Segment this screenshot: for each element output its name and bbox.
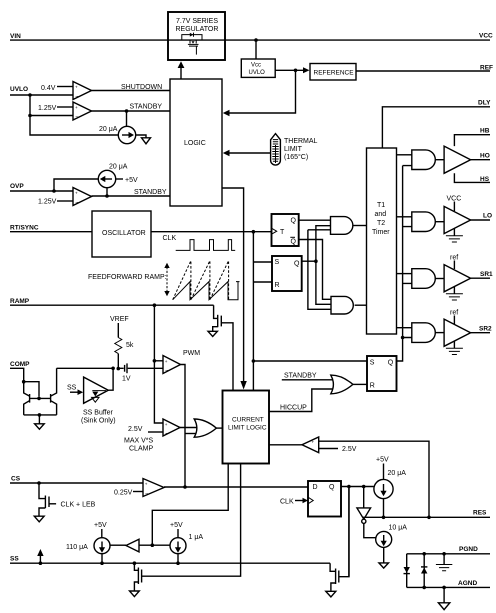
svg-text:HO: HO (480, 153, 490, 160)
svg-text:1V: 1V (122, 376, 131, 383)
svg-text:R: R (370, 383, 375, 390)
svg-text:1.25V: 1.25V (38, 105, 57, 112)
svg-text:LOGIC: LOGIC (184, 140, 206, 147)
svg-text:T2: T2 (377, 220, 385, 227)
svg-text:−: − (145, 491, 148, 497)
svg-text:0.4V: 0.4V (41, 85, 56, 92)
svg-text:−: − (165, 431, 168, 437)
ground (UVLO 20uA) (136, 135, 151, 144)
wire PWM output (181, 365, 198, 488)
wire HB (454, 128, 490, 147)
svg-text:CLAMP: CLAMP (129, 446, 153, 453)
svg-text:10 μA: 10 μA (389, 525, 408, 532)
node RAMP junction (153, 303, 163, 423)
transistor pass PMOS inside regulator (182, 33, 202, 55)
svg-text:LIMIT: LIMIT (284, 146, 303, 153)
svg-text:20 μA: 20 μA (109, 164, 128, 171)
svg-text:T: T (280, 229, 285, 236)
wire 20uA to comparator output node (105, 188, 109, 198)
svg-text:ref: ref (450, 255, 458, 262)
svg-text:+: + (165, 422, 168, 427)
svg-text:Q: Q (294, 261, 300, 268)
svg-text:+: + (75, 85, 78, 90)
node UVLO junction lower (28, 114, 119, 135)
wire Vcc UVLO to LOGIC (223, 70, 296, 116)
svg-text:1 μA: 1 μA (189, 534, 204, 541)
wire REF output (356, 65, 493, 72)
svg-text:7.7V SERIES: 7.7V SERIES (176, 18, 218, 25)
svg-text:VCC: VCC (447, 196, 462, 203)
svg-text:+: + (165, 359, 168, 364)
svg-text:CLK: CLK (163, 235, 177, 242)
current source 20uA (RES) (374, 457, 406, 518)
svg-text:PGND: PGND (459, 546, 478, 553)
wire mirror emitters rail (24, 413, 57, 423)
svg-text:110 μA: 110 μA (66, 544, 88, 551)
svg-text:RES: RES (473, 510, 487, 517)
svg-text:Q: Q (291, 239, 297, 246)
svg-text:+: + (75, 105, 78, 110)
wire timer to AND1 upper (397, 154, 412, 156)
svg-text:and: and (375, 211, 387, 218)
comparator shutdown (73, 82, 92, 101)
symbol double arrow ramp amplitude (164, 263, 169, 296)
svg-text:VIN: VIN (10, 33, 21, 40)
wire timer to AND2 upper (397, 216, 412, 218)
buffer SR1 driver (444, 255, 471, 292)
svg-text:20 μA: 20 μA (388, 470, 407, 477)
svg-text:UVLO: UVLO (249, 70, 266, 76)
wire STANDBY (UVLO) (92, 104, 171, 112)
svg-text:REF: REF (480, 65, 493, 72)
svg-text:SS: SS (10, 556, 19, 563)
wire mirror bases (30, 397, 51, 399)
comparator OVP (73, 188, 92, 207)
buffer SS clamp (left pointing) (110, 539, 170, 552)
regulator U1 7.7V series regulator (168, 12, 225, 60)
wire T-FF Qbar to AND gate B (299, 240, 331, 300)
gate AND4 (SR2 path) (412, 323, 444, 343)
transistor mirror right BJT (51, 368, 57, 415)
wire CLK (151, 232, 272, 242)
ground (ramp NMOS) (208, 331, 217, 336)
wire 0.25V input (114, 490, 143, 497)
wire thermal limit to LOGIC (223, 150, 270, 156)
wire D-FF Q output (341, 485, 374, 489)
svg-text:MAX V*S: MAX V*S (124, 438, 154, 445)
block T1 and T2 timer (367, 148, 397, 334)
svg-text:−: − (75, 94, 78, 100)
wire SHUTDOWN (92, 84, 171, 91)
comparator 2.5V max clamp (124, 419, 180, 453)
wire timer to AND4 upper (397, 327, 412, 329)
svg-text:HICCUP: HICCUP (280, 405, 307, 412)
wire CS pin (10, 476, 143, 484)
node COMP junction (22, 380, 41, 400)
wire RT/SYNC pin (10, 225, 92, 232)
ground earth (PGND) (436, 554, 452, 571)
svg-text:1.25V: 1.25V (38, 199, 57, 206)
wire enable third input (308, 230, 331, 309)
ground (COMP mirror) (35, 424, 45, 429)
wire SS buffer output (108, 368, 113, 390)
svg-text:CLK: CLK (280, 499, 294, 506)
thermal limit sensor (271, 134, 318, 165)
buffer SS (sink only) (67, 377, 116, 424)
svg-text:5k: 5k (126, 342, 134, 349)
svg-text:Q: Q (329, 484, 335, 491)
gate AND3 (SR1 path) (412, 269, 444, 289)
wire LOGIC to current limit logic (222, 188, 247, 390)
svg-text:LO: LO (483, 213, 492, 220)
wire PGND (407, 546, 490, 556)
svg-text:Vcc: Vcc (251, 63, 261, 69)
diode D2 (AGND-PGND) (421, 554, 427, 588)
wire timer to AND3 upper (397, 273, 412, 275)
svg-text:SS: SS (67, 385, 77, 392)
svg-text:−: − (165, 368, 168, 374)
node VIN/VCC to Vcc-UVLO junction (254, 38, 258, 59)
svg-text:LIMIT LOGIC: LIMIT LOGIC (228, 425, 267, 432)
buffer HO driver (444, 146, 471, 173)
gate AND B (3-input) (331, 296, 353, 314)
wire Q to lower NMOS gate (348, 487, 350, 577)
wire SS pin rail (10, 556, 330, 564)
svg-text:RAMP: RAMP (10, 298, 30, 305)
svg-text:+5V: +5V (170, 522, 183, 529)
resistor 5k (115, 338, 134, 371)
block CURRENT LIMIT LOGIC (223, 391, 270, 464)
transistor mirror left BJT (24, 382, 30, 415)
svg-text:T1: T1 (377, 202, 385, 209)
wire 0.4V input (41, 85, 73, 92)
svg-text:0.25V: 0.25V (114, 490, 133, 497)
svg-text:Timer: Timer (372, 229, 390, 236)
current source 20uA (UVLO) (99, 109, 136, 144)
ground (SR1 driver) (446, 287, 463, 301)
wire CLL to SS clamp (152, 464, 228, 546)
latch SR (PWM latch) (272, 256, 302, 291)
svg-text:REFERENCE: REFERENCE (314, 70, 355, 77)
svg-text:HS: HS (480, 176, 490, 183)
wire DLY (382, 100, 491, 149)
svg-text:(Sink Only): (Sink Only) (81, 418, 116, 425)
svg-text:DLY: DLY (478, 100, 491, 107)
symbol SS up arrow (37, 549, 43, 565)
wire HICCUP (269, 389, 333, 412)
gate AND1 (HO path) (412, 150, 444, 170)
svg-text:VCC: VCC (479, 33, 493, 40)
svg-text:OVP: OVP (10, 183, 24, 190)
inverter (RES discharge) (357, 487, 376, 538)
wire Vcc UVLO output (275, 67, 309, 73)
ground (LO driver) (446, 228, 463, 242)
wire latch1 Q branch (302, 226, 331, 305)
block OSCILLATOR (92, 211, 151, 257)
svg-text:UVLO: UVLO (10, 86, 28, 93)
node UVLO junction upper (28, 93, 32, 115)
wire COMP pin (10, 361, 30, 382)
svg-text:R: R (275, 282, 280, 289)
svg-text:+: + (75, 191, 78, 196)
flip-flop D (restart) (308, 481, 341, 517)
wire STANDBY (OVP) (92, 189, 171, 196)
wire HO (471, 153, 490, 160)
svg-text:SS Buffer: SS Buffer (83, 410, 114, 417)
svg-text:20 μA: 20 μA (99, 126, 118, 133)
wire +5V (OVP source) (116, 177, 138, 184)
wire enable vertical to AND gates (397, 166, 412, 361)
wire VIN to VCC (10, 33, 493, 41)
svg-text:STANDBY: STANDBY (284, 373, 317, 380)
wire 1.25V input (OVP) (38, 199, 73, 206)
wire AND B to timer (355, 304, 367, 306)
svg-text:AGND: AGND (458, 580, 477, 587)
svg-text:−: − (75, 115, 78, 121)
flip-flop T (toggle) (272, 214, 299, 246)
symbol sink arrow (10uA) (379, 563, 389, 568)
svg-text:SR2: SR2 (479, 326, 492, 333)
transistor ramp discharge NMOS (213, 305, 233, 390)
wire CLK to D flip-flop (280, 498, 308, 506)
comparator PWM (153, 350, 201, 374)
svg-text:STANDBY: STANDBY (134, 189, 167, 196)
ground (SS NMOS left) (130, 591, 140, 597)
svg-text:REGULATOR: REGULATOR (176, 26, 219, 33)
label feedforward ramp (88, 274, 167, 281)
svg-text:COMP: COMP (10, 361, 30, 368)
svg-text:ref: ref (450, 310, 458, 317)
waveform clock pulses (176, 240, 236, 251)
node CLK junction (252, 230, 256, 390)
wire 1.25V input (38, 105, 73, 112)
block REFERENCE (310, 64, 356, 81)
svg-text:+: + (145, 482, 148, 487)
current source 110uA (SS) (66, 522, 110, 565)
latch SR (hiccup latch) (367, 356, 397, 391)
svg-text:FEEDFORWARD RAMP:: FEEDFORWARD RAMP: (88, 274, 167, 281)
ground (AGND) (438, 587, 449, 609)
current source 10uA (RES) (376, 525, 408, 563)
svg-text:HB: HB (480, 128, 490, 135)
svg-text:Q: Q (291, 218, 297, 225)
wire OVP pin (10, 183, 73, 191)
svg-text:SHUTDOWN: SHUTDOWN (121, 84, 162, 91)
transistor SS discharge NMOS (left) (133, 464, 241, 591)
svg-text:2.5V: 2.5V (128, 426, 143, 433)
svg-text:−: − (75, 200, 78, 206)
comparator CS (143, 479, 164, 498)
svg-text:STANDBY: STANDBY (130, 104, 163, 111)
transistor SS discharge NMOS (right) (330, 487, 349, 591)
svg-text:VREF: VREF (110, 316, 129, 323)
svg-text:SR1: SR1 (480, 271, 493, 278)
buffer SR2 driver (444, 310, 471, 347)
wire SR2 (471, 326, 492, 333)
wire AGND (407, 580, 490, 589)
ground (CLK+LEB NMOS) (34, 516, 44, 522)
svg-text:+5V: +5V (376, 457, 389, 464)
wire LO (471, 213, 492, 221)
svg-text:Q: Q (388, 360, 394, 367)
wire CS comparator output (164, 485, 308, 489)
svg-text:S: S (275, 259, 280, 266)
wire T-FF Q to AND gate A (299, 219, 331, 221)
svg-text:PWM: PWM (183, 350, 200, 357)
svg-text:+5V: +5V (94, 522, 107, 529)
wire HS (454, 173, 490, 183)
svg-text:OSCILLATOR: OSCILLATOR (102, 230, 146, 237)
svg-text:+: + (312, 440, 315, 445)
svg-text:THERMAL: THERMAL (284, 138, 318, 145)
wire RAMP pin (10, 298, 214, 305)
svg-text:CLK + LEB: CLK + LEB (61, 502, 96, 509)
wire arrow LOGIC to regulator (178, 61, 185, 79)
wire latch R to latch2 S (252, 359, 367, 363)
node CS junction (37, 481, 45, 498)
svg-text:CURRENT: CURRENT (232, 417, 264, 424)
label VREF (110, 316, 129, 338)
current source 20uA (OVP) (98, 164, 127, 188)
waveform feedforward ramp sawtooth (173, 261, 240, 300)
comparator standby (UVLO) (73, 102, 92, 121)
wire AND A to timer (353, 225, 367, 227)
svg-text:2.5V: 2.5V (342, 446, 357, 453)
gate OR (pwm/clamp) (194, 419, 222, 437)
gate AND2 (LO path) (412, 212, 444, 232)
block LOGIC (170, 79, 222, 206)
svg-text:RT/SYNC: RT/SYNC (10, 225, 39, 232)
gate AND A (3-input) (331, 217, 353, 235)
capacitor 1V (118, 363, 163, 382)
block Vcc UVLO (241, 59, 275, 77)
wire clamp output (180, 427, 197, 429)
buffer LO driver (444, 196, 471, 234)
svg-text:CS: CS (11, 476, 21, 483)
svg-text:(165°C): (165°C) (284, 153, 308, 161)
wire CLK to latch S (253, 261, 272, 263)
wire STANDBY to OR (282, 373, 333, 380)
ground (SS NMOS right) (326, 591, 336, 597)
wire UVLO pin (10, 86, 73, 95)
gate OR (standby/hiccup) (331, 375, 367, 394)
wire mirror to comp net (57, 367, 115, 371)
comparator 2.5V restart (269, 437, 429, 517)
svg-text:D: D (313, 484, 318, 491)
svg-text:S: S (370, 360, 375, 367)
svg-text:+5V: +5V (125, 177, 138, 184)
wire SR1 (471, 271, 493, 278)
wire RES (363, 510, 490, 520)
diode D1 (PGND-AGND) (404, 554, 410, 588)
wire latch R (253, 281, 272, 283)
current source 1uA (SS) (170, 522, 203, 565)
node OVP junction (52, 179, 98, 193)
transistor CLK+LEB NMOS (39, 496, 96, 516)
ground (SR2 driver) (446, 341, 463, 355)
